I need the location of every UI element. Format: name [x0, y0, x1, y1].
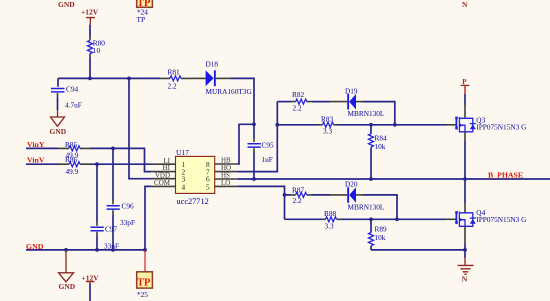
svg-text:*25: *25: [137, 290, 148, 299]
resistor R87: [291, 185, 313, 205]
pin 7 HO: [206, 164, 238, 176]
svg-text:C97: C97: [105, 224, 118, 233]
power port +12V (top): [81, 8, 99, 26]
junction R84/HS: [369, 177, 373, 181]
svg-text:4: 4: [182, 182, 186, 191]
pin 4 COM: [151, 179, 186, 191]
wire D18 to HB node: [216, 78, 254, 124]
junction D19/gate: [393, 123, 397, 127]
svg-text:10k: 10k: [375, 142, 386, 151]
svg-text:4.7uF: 4.7uF: [65, 101, 82, 110]
wire +12V to R80: [89, 25, 91, 37]
svg-text:ucc27712: ucc27712: [177, 197, 209, 206]
wire D20 to gate node: [356, 195, 397, 219]
pin 6 HS: [206, 172, 238, 184]
junction LO/R87: [283, 193, 287, 197]
svg-text:2.2: 2.2: [293, 196, 302, 205]
svg-text:U17: U17: [176, 148, 189, 157]
pin 3 VDD: [151, 171, 186, 183]
resistor R85: [58, 140, 91, 160]
wire R88 to Q4 gate: [341, 218, 456, 220]
svg-text:R86: R86: [65, 155, 78, 164]
svg-text:GND: GND: [58, 0, 75, 9]
wire VDD feed vertical: [129, 78, 151, 178]
wire R87 row left: [285, 194, 291, 196]
svg-text:2.2: 2.2: [168, 82, 177, 91]
svg-text:10: 10: [93, 46, 101, 55]
test point TP *24: [137, 0, 153, 24]
svg-text:5: 5: [206, 182, 210, 191]
svg-text:P: P: [462, 78, 467, 86]
resistor R88: [321, 209, 341, 231]
svg-text:R88: R88: [324, 209, 337, 218]
junction N node: [463, 248, 467, 252]
pin 2 HI: [151, 164, 186, 176]
resistor R86: [58, 155, 91, 176]
junction R80/row: [88, 77, 92, 81]
svg-text:1uF: 1uF: [262, 155, 273, 164]
svg-text:10k: 10k: [375, 233, 386, 242]
wire top node row: [58, 77, 160, 79]
svg-text:3.3: 3.3: [325, 221, 334, 230]
junction C97 tap: [95, 162, 99, 166]
svg-text:VinV: VinV: [27, 156, 45, 165]
wire VinY row: [26, 147, 58, 149]
svg-text:C96: C96: [122, 202, 135, 211]
net label VinY: [27, 140, 45, 149]
svg-text:COM: COM: [154, 179, 171, 187]
svg-text:N: N: [462, 0, 468, 9]
svg-text:2.2: 2.2: [293, 104, 302, 113]
capacitor C97: [91, 164, 120, 250]
resistor R83: [318, 114, 338, 135]
resistor R84: [369, 125, 388, 179]
wire HO riser: [238, 102, 277, 172]
svg-text:MBRN130L: MBRN130L: [348, 109, 385, 118]
net label GND (bottom row): [26, 242, 44, 251]
transistor Q3: [455, 116, 527, 133]
junction VDD feed: [127, 77, 131, 81]
svg-text:D18: D18: [206, 60, 219, 69]
svg-text:R87: R87: [292, 185, 305, 194]
wire R89 to N node: [371, 249, 465, 251]
svg-text:33pF: 33pF: [120, 218, 135, 227]
wire R82 to D19: [312, 101, 347, 103]
svg-text:IPP075N15N3 G: IPP075N15N3 G: [476, 215, 527, 224]
op-amp U17 body: [176, 148, 215, 206]
junction D20/gate: [395, 217, 399, 221]
power port GND (below C94): [50, 110, 67, 136]
test point TP *25: [137, 250, 153, 301]
wire Q3 source to HS: [464, 132, 466, 179]
diode D20: [345, 180, 385, 212]
wire LO riser: [238, 186, 285, 219]
wire R87 to D20: [312, 194, 347, 196]
wire Q4 source to N: [464, 226, 466, 257]
junction R84 top: [369, 123, 373, 127]
svg-text:MBRN130L: MBRN130L: [348, 202, 385, 211]
svg-text:N: N: [462, 275, 468, 284]
wire GND row: [26, 249, 145, 251]
svg-text:MURA160T3G: MURA160T3G: [206, 87, 253, 96]
capacitor C95: [248, 124, 275, 179]
net label VinV: [27, 156, 45, 165]
resistor R82: [291, 90, 313, 113]
junction C95/HS: [252, 177, 256, 181]
junction GND/COM/TP: [143, 248, 147, 252]
power port P: [461, 78, 470, 94]
wire R83 to Q3 gate: [338, 124, 456, 126]
resistor R80: [88, 37, 106, 58]
power port GND (top-left label): [58, 0, 75, 9]
wire Q3/Q4 column: [464, 179, 466, 213]
svg-text:TP: TP: [137, 15, 146, 24]
pin 5 LO: [206, 179, 238, 191]
wire COM to GND row: [145, 186, 151, 250]
svg-text:C94: C94: [66, 85, 79, 94]
svg-text:GND: GND: [50, 127, 67, 136]
svg-text:3.3: 3.3: [323, 127, 332, 136]
capacitor C96: [107, 148, 136, 250]
junction R89 top: [369, 217, 373, 221]
svg-text:IPP075N15N3 G: IPP075N15N3 G: [476, 123, 527, 132]
wire VinY to HI jog: [91, 148, 152, 171]
resistor R81: [160, 68, 192, 91]
pin 1 LI: [151, 157, 186, 169]
junction GND/C96: [111, 248, 115, 252]
wire HS/B_PHASE row: [238, 178, 550, 180]
svg-text:D19: D19: [345, 86, 358, 95]
wire VinV to LI: [91, 163, 152, 165]
svg-text:49.9: 49.9: [66, 167, 79, 176]
wire R81 to D18: [192, 77, 206, 79]
svg-text:C95: C95: [262, 141, 275, 150]
junction HO/R83: [275, 123, 279, 127]
wire VinV row: [26, 163, 58, 165]
svg-text:GND: GND: [59, 282, 76, 291]
power port +12V (bottom): [82, 273, 100, 301]
power port GND (bottom): [59, 250, 76, 291]
junction C96 tap: [111, 147, 115, 151]
junction Q3 source/HS: [463, 177, 467, 181]
wire R83 row: [277, 124, 318, 126]
resistor R89: [369, 219, 388, 250]
net label B_PHASE: [488, 171, 523, 180]
svg-text:B_PHASE: B_PHASE: [488, 171, 523, 180]
svg-text:R82: R82: [292, 90, 305, 99]
net label N (top right): [462, 0, 468, 9]
junction GND/C97: [95, 248, 99, 252]
svg-text:LO: LO: [221, 179, 230, 187]
junction GND/gnd-symbol: [64, 248, 68, 252]
diode D18: [206, 60, 253, 96]
svg-text:D20: D20: [345, 180, 358, 189]
svg-text:R83: R83: [321, 114, 334, 123]
capacitor C94: [51, 78, 82, 110]
wire R82 row left: [277, 101, 290, 103]
svg-text:TP: TP: [137, 278, 151, 289]
wire R88 row: [285, 218, 322, 220]
ground N (earth symbol): [458, 258, 474, 284]
svg-text:R85: R85: [65, 140, 78, 149]
svg-text:R81: R81: [168, 68, 181, 77]
wire P to Q3 drain: [464, 94, 466, 118]
wire D19 to gate node: [356, 102, 395, 125]
diode D19: [345, 86, 385, 118]
svg-text:+12V: +12V: [81, 8, 99, 17]
wire HB link to pin 8: [238, 124, 254, 164]
pin 8 HB: [206, 157, 238, 169]
wire R80 to node row: [89, 58, 91, 79]
junction HB node: [252, 122, 256, 126]
transistor Q4: [455, 208, 527, 227]
